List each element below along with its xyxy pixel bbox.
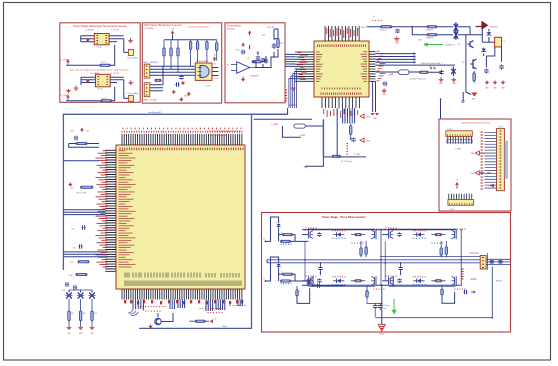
- resistor branch 2: [79, 299, 81, 326]
- wire right branch box3: [273, 29, 275, 40]
- svg-text:nT: nT: [373, 16, 375, 18]
- bus curve below MCU: [132, 300, 134, 310]
- svg-text:CD4041UBPW: CD4041UBPW: [196, 61, 208, 63]
- wires hall A to gate: [150, 66, 196, 75]
- svg-text:C1: C1: [503, 41, 505, 43]
- wire loop bl: [297, 288, 310, 303]
- svg-text:Q2: Q2: [462, 62, 464, 64]
- wire row bridge A high: [308, 228, 375, 230]
- svg-text:GND: GND: [366, 141, 371, 143]
- resistor R7 divider: [216, 40, 218, 61]
- ic C1 small: [495, 37, 502, 47]
- svg-text:LM358/SO: LM358/SO: [250, 76, 260, 78]
- diode D1 topright: [487, 32, 492, 35]
- red flags mid right: [430, 67, 436, 69]
- svg-text:BLDC Motor Hall Sensors Connec: BLDC Motor Hall Sensors Connector: [145, 24, 183, 27]
- diode D2 topright: [481, 49, 486, 52]
- ic U1 B: [96, 74, 111, 87]
- wire transistor: [157, 313, 159, 317]
- labels TB3: [462, 269, 464, 279]
- cap col A topright: [484, 68, 488, 73]
- wire into connector box: [440, 99, 442, 119]
- wire to cap: [428, 70, 441, 72]
- svg-text:U1-B: U1-B: [98, 89, 103, 91]
- junction dots box3: [255, 67, 257, 69]
- labels left MCU pins: [103, 150, 108, 152]
- svg-text:J_PWR: J_PWR: [455, 149, 462, 151]
- ground below transistor: [149, 325, 153, 329]
- ground cluster topright c: [501, 81, 505, 85]
- capacitor bridge A low: [317, 279, 321, 284]
- cap above opamp: [241, 50, 246, 54]
- red input arrow U1A: [87, 38, 90, 42]
- wire mcu-box top extension: [252, 108, 288, 114]
- ground row1: [394, 37, 400, 42]
- svg-text:TP_PA#: TP_PA#: [354, 153, 361, 156]
- bus curl left: [128, 309, 138, 316]
- svg-text:HALL_(CONN): HALL_(CONN): [144, 99, 158, 102]
- wires hall B bus: [150, 85, 163, 91]
- cap C right box3: [272, 43, 276, 49]
- wire down node j: [462, 92, 464, 100]
- pins left MCU: [105, 150, 116, 271]
- crystal row2: [454, 30, 458, 40]
- resistor R4 divider: [189, 40, 191, 67]
- resistor R1 hall: [163, 40, 165, 66]
- svg-text:DC-link: DC-link: [384, 305, 390, 307]
- resistor row1 b: [427, 26, 437, 28]
- wire row bridge B high: [389, 228, 456, 230]
- svg-text:Q1: Q1: [458, 44, 460, 46]
- svg-text:R23: R23: [280, 43, 283, 45]
- svg-text:GND: GND: [304, 167, 309, 169]
- ic U5 MCU: [116, 145, 245, 289]
- pullgate line: [323, 156, 366, 158]
- ground left B below U1B: [66, 89, 71, 93]
- wire to thermal pad 2: [124, 80, 129, 98]
- cap C21 below: [383, 82, 388, 86]
- wire U4 right bus: [376, 64, 456, 66]
- mosfet left bridge A low: [308, 277, 310, 285]
- svg-text:T_OUT2: T_OUT2: [111, 73, 120, 75]
- resistor right of DA: [420, 71, 429, 73]
- wire gnd stub: [305, 156, 324, 166]
- mid cap group B: [398, 266, 402, 271]
- pin names left inside MCU: [119, 150, 126, 152]
- green arrow: [424, 43, 443, 46]
- op-amp U3: [237, 62, 250, 74]
- svg-text:Optional Power Board Connector: Optional Power Board Connector: [461, 122, 491, 125]
- wire D2: [483, 48, 485, 49]
- cap C hall1: [179, 75, 183, 79]
- red mark CON1 low: [487, 172, 491, 174]
- resistor row1 a: [381, 26, 392, 28]
- svg-text:Power Stage Winding(s) Tempera: Power Stage Winding(s) Temperature Senso…: [73, 24, 127, 28]
- resistor under U4: [350, 124, 352, 138]
- pin names bottom inside MCU groups: [205, 273, 207, 278]
- svg-text:C32: C32: [71, 228, 74, 230]
- block box power board connector: [439, 119, 511, 211]
- resistor row bridge A low: [351, 280, 365, 282]
- wires gate out: [212, 68, 219, 76]
- wire opamp out right: [256, 57, 274, 68]
- power flag box3: [248, 31, 251, 36]
- wire down to cap: [350, 137, 352, 140]
- wire U1A left pins: [81, 36, 95, 42]
- branch wire top: [69, 289, 92, 291]
- ground branch 3: [90, 326, 95, 330]
- block box current mode: [225, 23, 285, 103]
- wire bundle left A: [63, 210, 105, 215]
- wire T_HEAT: [254, 118, 312, 120]
- resistor pull gate: [332, 155, 340, 157]
- svg-text:TH_R: TH_R: [388, 75, 393, 77]
- labels diode bridge B low: [413, 276, 425, 277]
- top left cluster: [80, 128, 83, 132]
- mosfet right bridge A high: [374, 230, 376, 239]
- power flag dark red: [476, 22, 488, 29]
- cap mid box3 a: [256, 56, 260, 60]
- svg-text:R43: R43: [94, 313, 97, 315]
- component DA rounded: [399, 70, 410, 75]
- ground under crystal r: [451, 78, 456, 82]
- mosfet right bridge B low: [455, 276, 457, 285]
- wire DA: [376, 71, 399, 73]
- resistor R_T2: [101, 100, 111, 102]
- pins right U4: [369, 52, 376, 82]
- labels top MCU pins: [122, 131, 242, 133]
- svg-text:GND: GND: [366, 117, 371, 119]
- red dot bottom: [381, 285, 383, 287]
- grounds under right pair: [371, 113, 380, 116]
- labels pins top U4: [326, 28, 328, 34]
- pin names left inside U4: [316, 51, 320, 53]
- svg-text:+5_SENS: +5_SENS: [85, 30, 95, 32]
- ic U4 gate driver: [314, 41, 369, 97]
- resistor R3 hall: [177, 40, 179, 72]
- cluster left d: [76, 273, 87, 275]
- svg-text:GND: GND: [184, 96, 189, 98]
- filter L3: [89, 293, 95, 299]
- phase rail 1: [267, 259, 480, 261]
- open arrow GND B: [475, 171, 479, 175]
- wires caps topright: [485, 56, 487, 67]
- capacitor bridge B low: [397, 279, 401, 284]
- resistor pair IN_B: [283, 273, 293, 275]
- power flag HL_TEMP 1: [66, 59, 69, 65]
- ground hall mid2: [187, 92, 191, 96]
- wire group below MCU b: [215, 300, 217, 311]
- mosfet left bridge A high: [308, 231, 310, 239]
- block box power stage: [262, 213, 511, 333]
- svg-text:HL_TEMP: HL_TEMP: [60, 60, 70, 62]
- connector CON11 body: [448, 200, 474, 206]
- pins left U4: [295, 52, 314, 81]
- svg-text:InterpSpeed(R): InterpSpeed(R): [148, 111, 162, 114]
- wire bundle left B: [63, 252, 105, 257]
- pins CON1: [485, 133, 497, 188]
- power flag right gate: [213, 57, 216, 62]
- labels bottom MCU pins: [124, 300, 126, 303]
- vertical rail left: [266, 260, 268, 263]
- mosfet left bridge B low: [389, 277, 391, 285]
- mosfet right bridge A low: [374, 276, 376, 285]
- open arrow gnd mid a: [360, 138, 364, 142]
- ground right of U1B: [128, 80, 133, 84]
- diode bridge B high: [417, 232, 421, 236]
- cap col B topright: [499, 64, 503, 69]
- pins top U4: [325, 26, 359, 41]
- pin names right inside U4: [364, 51, 368, 53]
- bottom rail power: [302, 284, 460, 286]
- gate resistor group B: [445, 241, 447, 257]
- svg-text:R32: R32: [70, 262, 73, 264]
- red label col mid: [347, 144, 349, 155]
- svg-text:NOT POPULATED: NOT POPULATED: [211, 134, 227, 137]
- ground cluster topright a: [485, 81, 489, 85]
- resistor R8 small: [155, 79, 161, 81]
- svg-text:C34: C34: [62, 290, 65, 292]
- resistor row bridge B high: [431, 234, 445, 236]
- wire staircase topleft: [69, 144, 99, 148]
- ground hall mid3: [172, 90, 176, 94]
- pins bottom U4: [322, 97, 359, 108]
- caps bottom left cluster: [65, 282, 69, 286]
- transistor Q1 topright: [468, 41, 474, 48]
- wire bottom loop U1B: [66, 100, 101, 102]
- labels CON1 pins: [481, 132, 484, 189]
- capacitor bridge A high: [317, 232, 321, 237]
- connector J hall B: [144, 83, 150, 97]
- ground under opamp: [241, 77, 245, 82]
- resistor left c: [78, 261, 89, 263]
- svg-text:PGND: PGND: [379, 334, 385, 336]
- svg-text:Note: only one temp sensor ass: Note: only one temp sensor assembly can …: [70, 69, 129, 72]
- resistor row bridge A high: [351, 234, 365, 236]
- resistor bleed: [366, 286, 368, 301]
- input network IN_A: [265, 217, 278, 241]
- vertical bus group B: [388, 229, 390, 232]
- red specks power rows: [306, 228, 316, 229]
- red dots box3: [257, 51, 258, 52]
- wire C1 left: [482, 41, 494, 43]
- resistor loop br: [441, 286, 443, 295]
- svg-text:+3V3DSP sw: +3V3DSP sw: [445, 45, 456, 47]
- svg-text:X_TAL: X_TAL: [68, 274, 73, 277]
- phase rail 2: [267, 262, 480, 264]
- connector CON10 body: [446, 131, 472, 137]
- cap dclink b: [378, 303, 382, 310]
- labels diode bridge B high: [413, 230, 425, 231]
- wire crystals to node: [458, 27, 470, 35]
- ground power big: [378, 324, 386, 331]
- feedback resistor opamp: [252, 61, 261, 63]
- svg-text:R24: R24: [236, 50, 239, 52]
- resistor vert topright: [473, 71, 475, 83]
- connector CON1 body: [497, 129, 505, 191]
- capacitor bridge B high: [397, 232, 401, 237]
- svg-text:X2: X2: [162, 132, 164, 134]
- block box temperature sensor: [60, 23, 140, 103]
- svg-text:GND1: GND1: [222, 326, 227, 328]
- svg-text:HALL_SENSOR: HALL_SENSOR: [144, 61, 159, 64]
- ground cluster topright b: [493, 81, 497, 85]
- ground hall bottom: [179, 97, 183, 101]
- svg-text:R+ Pull Gate: R+ Pull Gate: [341, 160, 352, 163]
- svg-text:TP4_A1: TP4_A1: [267, 26, 275, 29]
- svg-text:C31: C31: [86, 131, 89, 133]
- ground right of U1A: [128, 38, 133, 42]
- wire node down: [481, 27, 483, 43]
- labels pins right U4: [377, 50, 380, 52]
- led D3 red: [471, 93, 477, 97]
- resistor SPI left: [81, 186, 93, 188]
- wire bundle U4 bottom down: [342, 108, 344, 123]
- svg-text:R42: R42: [82, 313, 85, 315]
- wires below MCU verticals: [169, 300, 171, 310]
- cap left a: [81, 225, 85, 229]
- mosfet right bridge B high: [455, 230, 457, 239]
- open arrow gnd mid b: [360, 114, 364, 118]
- crystal symbol right: [451, 67, 456, 77]
- svg-text:C ACE dual robust/DA_O: C ACE dual robust/DA_O: [420, 62, 443, 65]
- bus down from U4 left: [295, 69, 297, 108]
- svg-text:R30: R30: [71, 131, 74, 133]
- gate resistor group A: [365, 241, 367, 257]
- red labels below MCU: [140, 306, 165, 307]
- svg-text:GND: GND: [471, 153, 476, 155]
- labels diode bridge A high: [333, 230, 345, 231]
- mosfet left bridge B high: [389, 231, 391, 239]
- wire bl right: [312, 285, 345, 287]
- phase connector TB3: [480, 256, 486, 270]
- vertical TB3: [486, 253, 488, 270]
- mosfet bl: [307, 279, 309, 286]
- resistor pair IN_A: [283, 234, 293, 236]
- diode bridge A high: [337, 232, 341, 236]
- resistor loop bl: [296, 286, 298, 296]
- svg-text:U1-A: U1-A: [97, 46, 102, 49]
- svg-text:(PTH4x): (PTH4x): [227, 28, 235, 30]
- wire row bridge B low: [389, 285, 456, 287]
- filter L2: [78, 293, 84, 299]
- labels pins bottom U4: [323, 109, 325, 114]
- svg-text:TB3 PH: TB3 PH: [496, 281, 503, 283]
- power flag HL_TEMP 2: [66, 95, 69, 100]
- junction dots group A: [308, 229, 309, 230]
- svg-text:Resistors Divider (Opt.): Resistors Divider (Opt.): [189, 25, 210, 28]
- wire bottom rail power: [376, 267, 492, 318]
- wires TB3 right: [486, 259, 510, 264]
- svg-text:ThermalWire: ThermalWire: [127, 58, 139, 60]
- svg-text:J_SIG: J_SIG: [449, 209, 455, 211]
- resistor R_T1: [100, 64, 110, 66]
- connector CON1 highlight: [505, 141, 508, 179]
- wire row bridge A low: [308, 285, 375, 287]
- wire U1A right pins: [109, 36, 124, 39]
- ground SPI left: [68, 183, 72, 187]
- mid rail short: [380, 256, 480, 258]
- cap right opamp: [264, 59, 268, 64]
- labels diode bridge A low: [333, 276, 345, 277]
- pin numbers bottom inside U4: [321, 93, 361, 95]
- mid cap group A: [318, 266, 322, 271]
- filter L1: [66, 293, 72, 299]
- wire U1B left vert: [80, 77, 82, 85]
- wire center ground drop: [381, 285, 383, 324]
- wire U1A left vertical: [80, 36, 82, 42]
- mcu block outline: [63, 114, 287, 270]
- resistor branch 3: [91, 299, 93, 326]
- ground under C21: [382, 88, 387, 92]
- wire Q1 down: [465, 35, 467, 92]
- ground under left bus: [291, 88, 296, 90]
- open arrow GND A: [475, 151, 479, 155]
- svg-text:Rs: Rs: [314, 284, 316, 286]
- diode bridge A low: [337, 279, 341, 283]
- wires U4 right long: [376, 54, 414, 63]
- svg-text:ePWM: ePWM: [300, 135, 306, 137]
- wire group below MCU c: [237, 300, 239, 307]
- svg-text:C33: C33: [72, 247, 75, 249]
- svg-text:R31: R31: [70, 187, 73, 189]
- junction dots group B: [388, 229, 389, 230]
- connector CON10 teeth: [448, 137, 472, 144]
- vertical bus group A: [307, 229, 309, 232]
- svg-text:cap: cap: [384, 308, 387, 310]
- resistor below MCU: [189, 320, 209, 322]
- top rail power: [302, 229, 457, 231]
- svg-text:100ROhm: 100ROhm: [426, 38, 434, 40]
- resistor row2: [427, 34, 437, 36]
- input network IN_B: [265, 257, 278, 281]
- pins bottom MCU: [122, 289, 242, 300]
- svg-text:100ROhm: 100ROhm: [426, 30, 434, 32]
- power flag bottom conn: [455, 182, 458, 189]
- svg-text:R_T1: R_T1: [101, 62, 106, 64]
- svg-text:VCCW: VCCW: [214, 78, 220, 80]
- resistor top left mcu: [76, 142, 87, 144]
- svg-text:+3V3DSP: +3V3DSP: [489, 26, 498, 28]
- red label TB3 top: [470, 253, 478, 254]
- wire bottom loop U1A: [66, 64, 100, 66]
- svg-text:R_T2: R_T2: [102, 98, 107, 100]
- wire to thermal pad 1: [124, 39, 129, 53]
- cap C20: [439, 70, 443, 74]
- svg-text:nc: nc: [429, 65, 431, 67]
- power flag box2: [171, 31, 174, 36]
- svg-text:Current Mode: Current Mode: [227, 24, 242, 27]
- mcu block right edge: [139, 114, 251, 328]
- ground branch 1: [67, 326, 72, 330]
- connector CON11 teeth: [449, 194, 472, 200]
- teeth numbers CON10: [447, 140, 472, 143]
- cap TB3 b: [498, 260, 502, 264]
- pins top MCU: [122, 134, 242, 145]
- wire top rail box2: [164, 39, 217, 41]
- svg-text:ThermalWire: ThermalWire: [127, 93, 139, 95]
- resistor R5 divider: [196, 40, 198, 71]
- svg-text:R41: R41: [71, 313, 74, 315]
- junction row1: [412, 26, 414, 28]
- diode bridge B low: [417, 279, 421, 283]
- component mid small: [294, 124, 305, 128]
- transistor Q below MCU: [155, 318, 161, 324]
- pin numbers top inside U4: [318, 45, 366, 47]
- svg-text:T_HEAT: T_HEAT: [271, 123, 279, 126]
- svg-text:HL_TEMP: HL_TEMP: [60, 95, 70, 97]
- svg-text:C9: C9: [256, 53, 258, 55]
